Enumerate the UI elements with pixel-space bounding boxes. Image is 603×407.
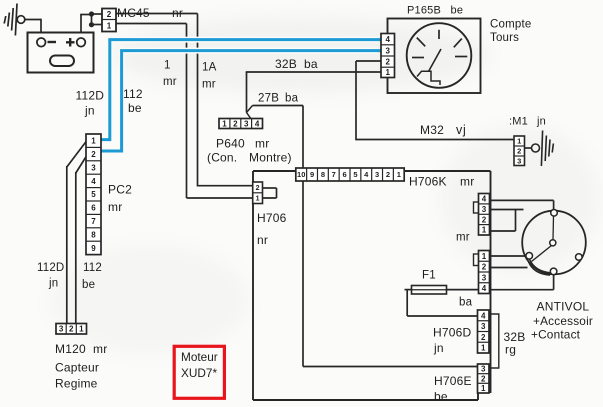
svg-text:1: 1 — [386, 68, 391, 77]
svg-text:1: 1 — [397, 170, 401, 179]
svg-text:ba: ba — [304, 57, 318, 71]
svg-text:2: 2 — [386, 170, 390, 179]
svg-text:1: 1 — [481, 344, 486, 353]
svg-text:112: 112 — [83, 262, 102, 274]
svg-text:2: 2 — [107, 10, 112, 19]
svg-text:2: 2 — [256, 185, 260, 192]
svg-text:4: 4 — [482, 195, 487, 204]
svg-text:mr: mr — [456, 232, 470, 244]
svg-text:4: 4 — [481, 311, 486, 320]
svg-text:9: 9 — [91, 244, 96, 253]
svg-text:5: 5 — [353, 170, 357, 179]
svg-text:4: 4 — [386, 35, 391, 44]
svg-text:2: 2 — [482, 263, 487, 272]
svg-text:mr: mr — [93, 342, 107, 356]
svg-text:3: 3 — [375, 170, 379, 179]
svg-text:2: 2 — [517, 147, 521, 156]
svg-text:Compte: Compte — [490, 19, 531, 31]
svg-text:Montre): Montre) — [249, 151, 292, 165]
svg-text:Regime: Regime — [55, 377, 98, 391]
svg-text:1: 1 — [256, 196, 260, 203]
svg-text:XUD7*: XUD7* — [181, 366, 217, 380]
svg-text:rg: rg — [505, 343, 516, 357]
svg-text:2: 2 — [481, 374, 486, 383]
svg-text:1: 1 — [482, 226, 487, 235]
svg-text:mr: mr — [202, 79, 216, 91]
svg-text:ba: ba — [459, 297, 473, 309]
svg-text:2: 2 — [233, 119, 238, 128]
svg-text:3: 3 — [481, 322, 486, 331]
svg-text:3: 3 — [482, 205, 487, 214]
svg-text:32B: 32B — [275, 57, 297, 71]
svg-text:112D: 112D — [76, 89, 105, 103]
svg-text:9: 9 — [310, 170, 314, 179]
svg-text:be: be — [82, 279, 95, 291]
svg-text:vj: vj — [456, 123, 467, 137]
svg-text:4: 4 — [91, 177, 96, 186]
svg-text:H706K: H706K — [409, 175, 447, 189]
svg-text:1: 1 — [517, 137, 521, 146]
svg-text:1: 1 — [482, 252, 487, 261]
svg-text:3: 3 — [481, 365, 486, 374]
svg-text:1A: 1A — [202, 62, 217, 74]
svg-text:3: 3 — [91, 163, 96, 172]
svg-text:1: 1 — [91, 137, 96, 146]
svg-text:P165B: P165B — [407, 5, 441, 17]
svg-text:3: 3 — [386, 46, 391, 55]
svg-text:7: 7 — [332, 170, 336, 179]
svg-text:27B: 27B — [258, 93, 279, 105]
svg-text:6: 6 — [91, 204, 96, 213]
svg-text:3: 3 — [482, 273, 487, 282]
svg-text:+Contact: +Contact — [531, 328, 581, 342]
svg-text:nr: nr — [172, 6, 183, 20]
svg-text:Tours: Tours — [490, 32, 519, 44]
svg-text:jn: jn — [433, 341, 444, 355]
svg-text:112: 112 — [123, 87, 143, 101]
svg-text:H706: H706 — [257, 211, 287, 225]
svg-text:112D: 112D — [37, 262, 64, 274]
svg-text:3: 3 — [244, 119, 249, 128]
svg-text:be: be — [128, 101, 142, 115]
svg-text:nr: nr — [257, 233, 268, 247]
svg-text:PC2: PC2 — [108, 183, 132, 197]
svg-text:8: 8 — [91, 230, 96, 239]
svg-text:ANTIVOL: ANTIVOL — [537, 300, 590, 314]
svg-text:Moteur: Moteur — [181, 350, 218, 364]
svg-text:2: 2 — [91, 150, 96, 159]
svg-text:F1: F1 — [422, 270, 436, 282]
svg-text::M1: :M1 — [509, 116, 528, 128]
svg-text:5: 5 — [91, 190, 96, 199]
svg-text:2: 2 — [481, 333, 486, 342]
svg-text:P640: P640 — [216, 137, 245, 151]
svg-text:mr: mr — [255, 137, 269, 151]
svg-text:ba: ba — [285, 93, 299, 105]
svg-text:jn: jn — [536, 116, 546, 128]
svg-text:1: 1 — [222, 119, 227, 128]
svg-text:8: 8 — [321, 170, 325, 179]
svg-text:+Accessoir: +Accessoir — [533, 314, 593, 328]
svg-text:1: 1 — [107, 21, 112, 30]
svg-text:mr: mr — [108, 200, 122, 214]
svg-text:2: 2 — [69, 325, 74, 334]
svg-text:M120: M120 — [55, 342, 86, 356]
svg-text:be: be — [451, 5, 464, 17]
svg-text:7: 7 — [91, 217, 96, 226]
svg-text:be: be — [434, 390, 448, 404]
svg-text:(Con.: (Con. — [207, 151, 237, 165]
svg-text:1: 1 — [481, 384, 486, 393]
svg-text:2: 2 — [386, 57, 391, 66]
svg-text:jn: jn — [84, 104, 95, 118]
svg-text:10: 10 — [297, 170, 305, 179]
svg-text:3: 3 — [517, 156, 521, 165]
svg-text:1: 1 — [164, 60, 171, 72]
svg-text:4: 4 — [482, 284, 487, 293]
svg-text:Capteur: Capteur — [55, 361, 99, 375]
svg-text:H706E: H706E — [434, 374, 472, 388]
svg-text:jn: jn — [48, 278, 58, 290]
svg-text:mr: mr — [460, 175, 474, 189]
svg-text:2: 2 — [482, 215, 487, 224]
svg-text:1: 1 — [79, 325, 84, 334]
svg-text:6: 6 — [342, 170, 346, 179]
svg-text:mr: mr — [163, 76, 177, 88]
svg-text:H706D: H706D — [433, 326, 471, 340]
svg-text:3: 3 — [59, 325, 64, 334]
svg-text:4: 4 — [255, 119, 260, 128]
svg-text:M32: M32 — [420, 123, 444, 137]
svg-text:MC45: MC45 — [117, 6, 150, 20]
